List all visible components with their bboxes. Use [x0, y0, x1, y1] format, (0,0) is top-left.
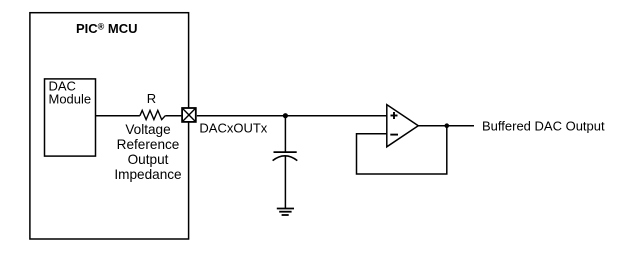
- svg-text:R: R: [147, 91, 156, 106]
- svg-text:Module: Module: [49, 92, 92, 107]
- svg-text:PIC® MCU: PIC® MCU: [76, 21, 138, 36]
- output node dot: [445, 123, 450, 128]
- resistor R1: [140, 110, 165, 119]
- wire pin to op-amp: [197, 115, 387, 117]
- svg-text:Buffered DAC Output: Buffered DAC Output: [482, 118, 605, 133]
- svg-text:Output: Output: [128, 152, 169, 167]
- capacitor C1: [273, 152, 298, 161]
- svg-text:Voltage: Voltage: [125, 122, 170, 137]
- wire node to capacitor: [284, 116, 286, 152]
- op-amp plus input marking: [391, 112, 398, 119]
- wire resistor to pin: [165, 115, 181, 117]
- junction node dot: [283, 113, 288, 118]
- svg-text:Impedance: Impedance: [114, 167, 181, 182]
- wire capacitor to ground: [284, 156, 286, 208]
- output wire: [418, 125, 474, 127]
- feedback wire: [357, 126, 447, 174]
- svg-text:Reference: Reference: [117, 137, 180, 152]
- svg-text:DACxOUTx: DACxOUTx: [199, 121, 267, 136]
- wire DAC module to resistor: [96, 115, 140, 117]
- PIC MCU block U1: [30, 13, 189, 239]
- DAC Module block: [45, 79, 96, 156]
- op-amp minus input marking: [390, 134, 398, 136]
- ground symbol: [277, 209, 294, 216]
- op-amp U2: [387, 105, 419, 147]
- pin DACxOUTx (crossed box): [182, 108, 196, 122]
